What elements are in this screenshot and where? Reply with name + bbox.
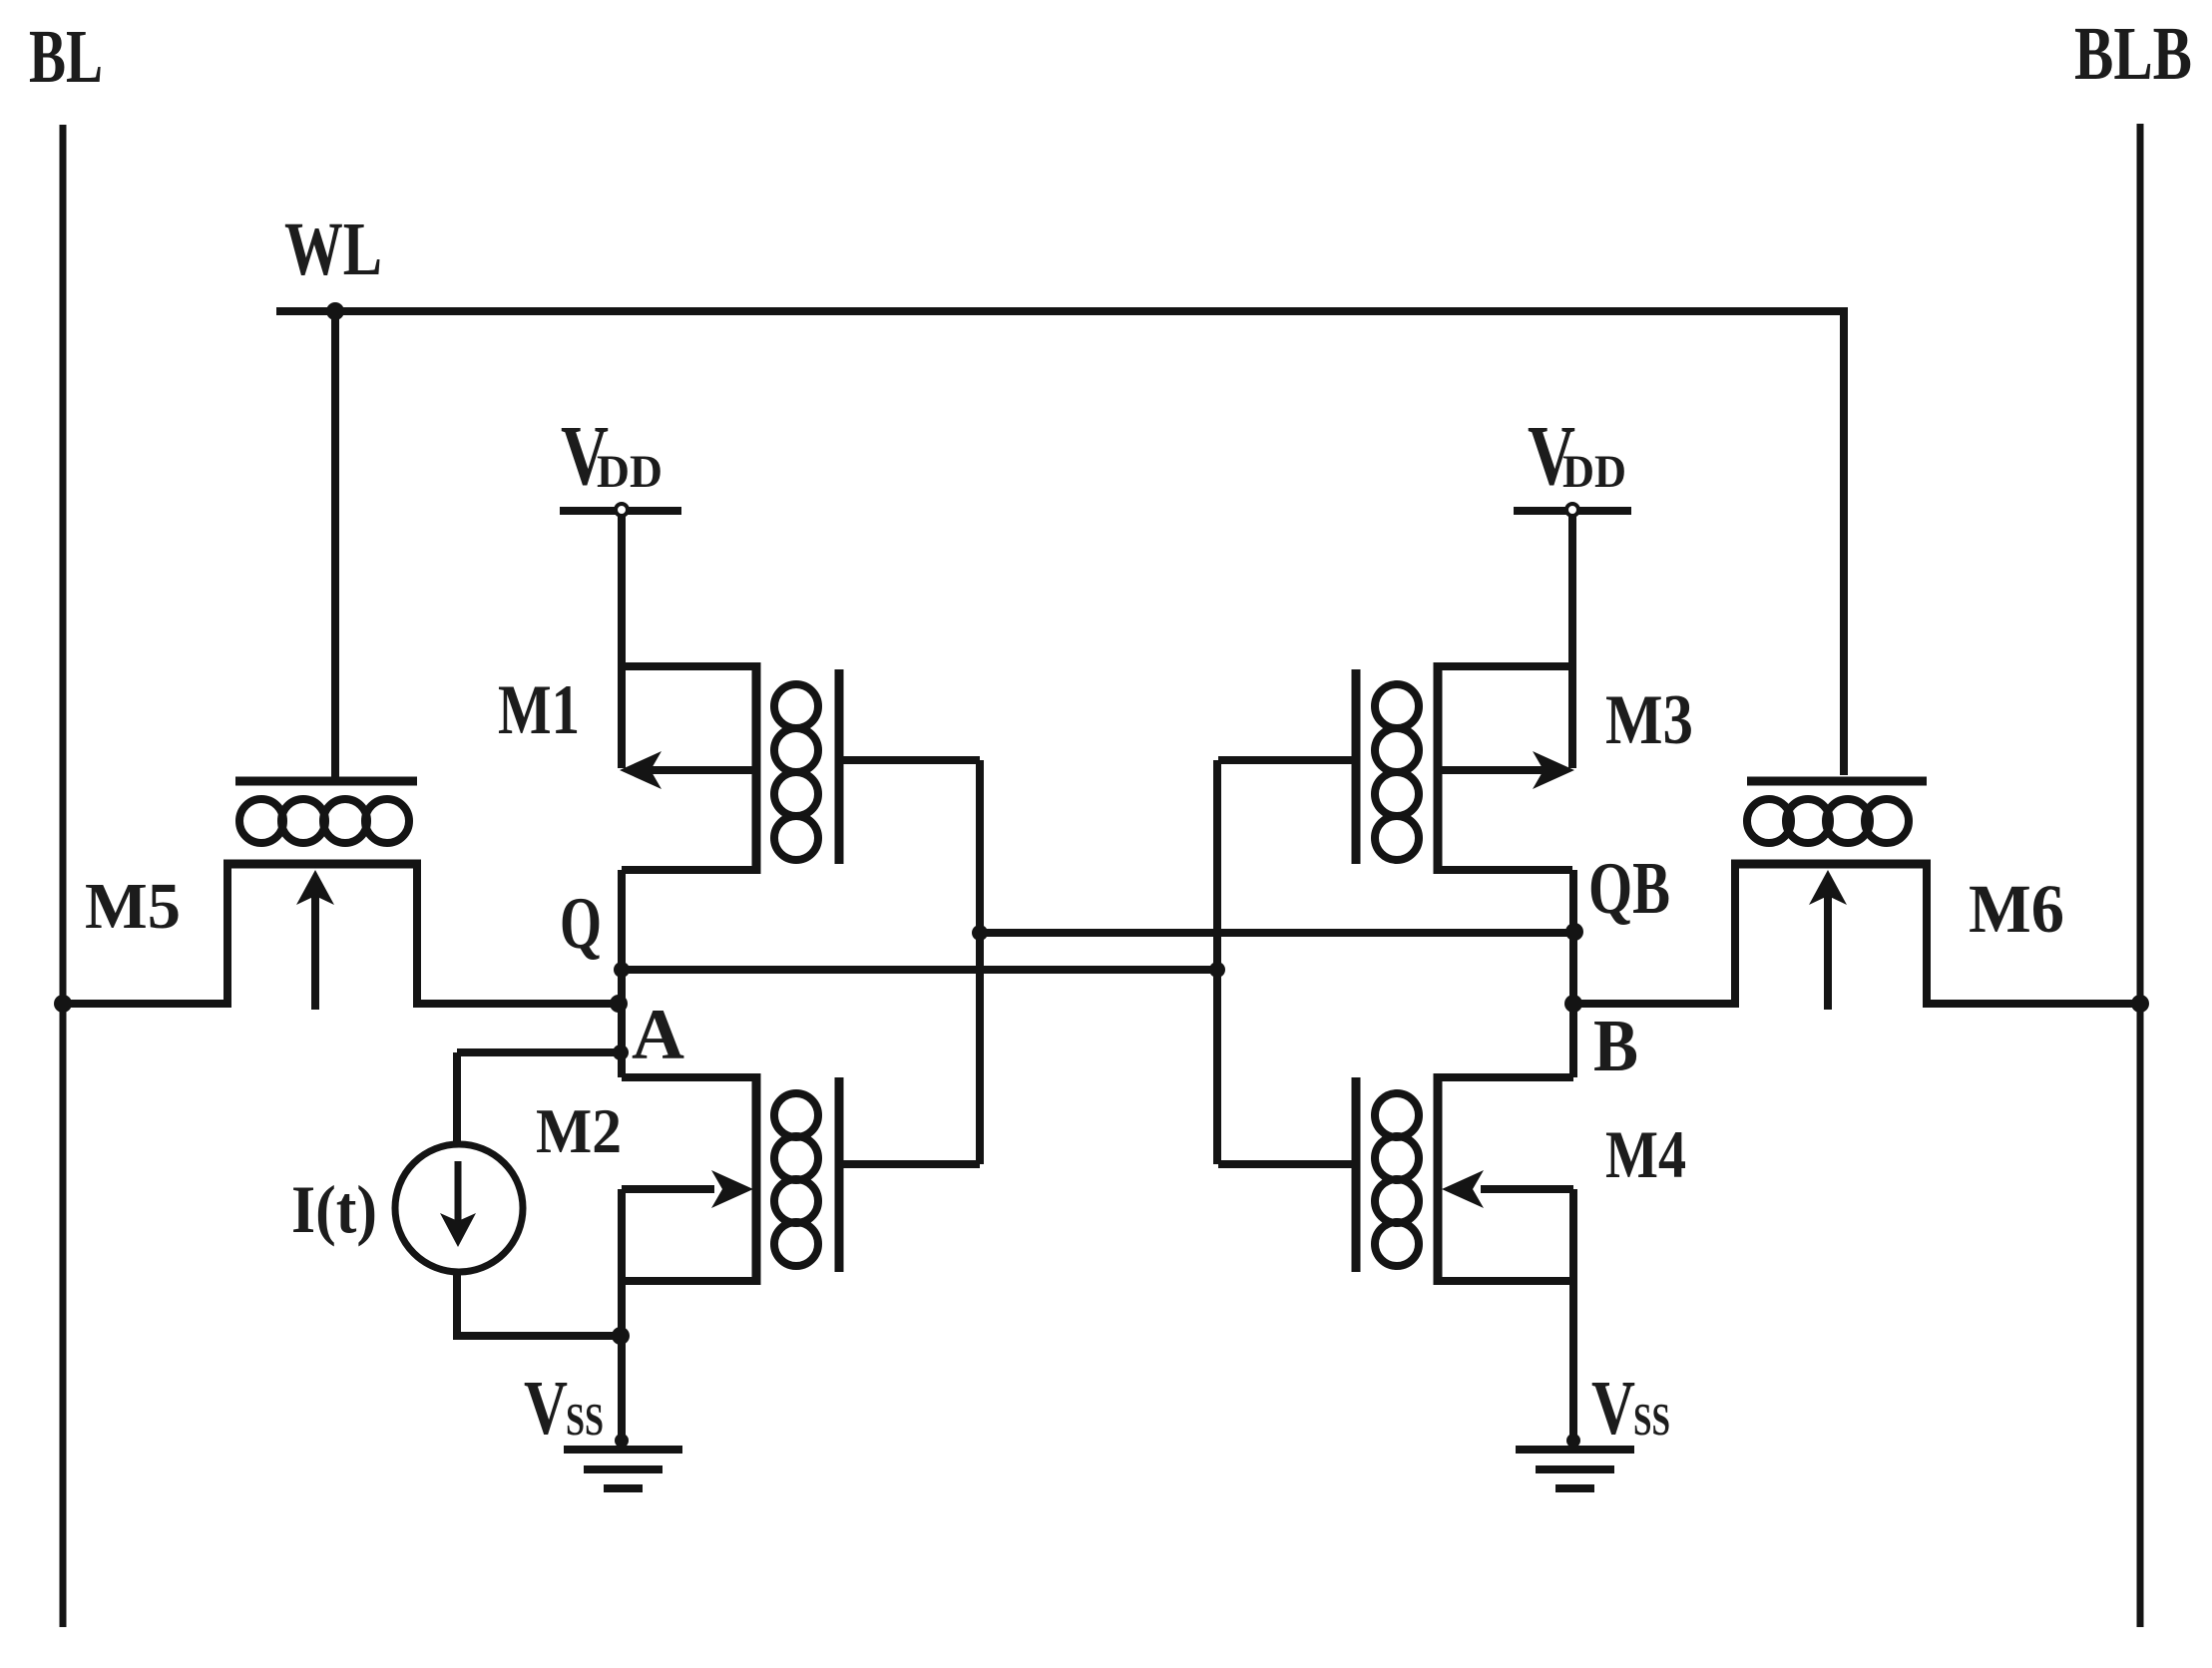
svg-text:M6: M6 <box>1969 871 2064 947</box>
M5 channel bar <box>223 860 421 869</box>
current source I(t) <box>395 1052 621 1336</box>
M4 gate bar <box>1352 1077 1361 1272</box>
M5 body arrow head <box>296 870 334 905</box>
M4 channel bar <box>1434 1073 1443 1285</box>
wire BL bit line <box>60 125 67 1627</box>
M6 channel bar <box>1731 860 1931 869</box>
svg-text:BLB: BLB <box>2074 12 2192 96</box>
wire WL word line <box>276 311 1844 775</box>
svg-text:QB: QB <box>1588 848 1670 930</box>
node QB <box>1565 923 1583 941</box>
svg-text:M2: M2 <box>536 1095 622 1166</box>
M1 channel bar <box>752 662 761 874</box>
node A <box>613 1044 629 1060</box>
node Q <box>614 962 630 978</box>
M2 source wire to VSS <box>618 1281 626 1447</box>
transistor M2 (NMOS pull-down, left) <box>622 1073 980 1447</box>
svg-text:DD: DD <box>1562 446 1626 498</box>
svg-text:SS: SS <box>1633 1395 1670 1445</box>
M1 source lead <box>622 662 756 670</box>
M5 drain lead to Q column <box>417 864 622 1004</box>
wire QB cross wire (upper, to M1/M2 gates) <box>980 929 1574 937</box>
M3 body lead <box>1438 766 1554 774</box>
current source arrow shaft <box>455 1161 462 1225</box>
M2 coil <box>774 1093 818 1266</box>
M2 gate bar <box>835 1077 844 1272</box>
svg-text:M5: M5 <box>85 870 181 943</box>
M2 body lead <box>622 1185 714 1193</box>
node Q wire right end <box>1209 962 1225 978</box>
wire Q column <box>618 870 626 1077</box>
M1 VDD supply bar <box>560 507 681 515</box>
M3 VDD supply bar <box>1514 507 1631 515</box>
M5 body lead <box>311 881 319 1010</box>
M6 source lead to B column <box>1573 864 1735 1004</box>
M6 body arrow head <box>1809 870 1847 905</box>
svg-text:WL: WL <box>284 208 382 291</box>
M2 body-source join <box>618 1189 626 1281</box>
M3 gate lead <box>1218 756 1356 764</box>
M6 drain lead to BLB <box>1927 864 2140 1004</box>
M1 VDD wire <box>618 511 626 768</box>
svg-text:I(t): I(t) <box>291 1171 377 1247</box>
node VSS junction left <box>612 1327 630 1345</box>
M4 body arrow head <box>1442 1170 1484 1208</box>
svg-text:V: V <box>1591 1365 1635 1451</box>
M6 coil <box>1747 799 1909 843</box>
current source circle <box>395 1144 523 1272</box>
svg-text:DD: DD <box>597 446 663 498</box>
node B <box>1564 995 1582 1013</box>
M5 gate bar <box>235 777 417 786</box>
M2 drain lead from A <box>622 1073 756 1081</box>
wire current source to VSS node <box>457 1272 621 1336</box>
M4 source lead <box>1438 1277 1573 1285</box>
transistor M6 (access NMOS, right) <box>1573 781 2140 1010</box>
current source arrow head <box>440 1213 476 1247</box>
M3 drain lead <box>1438 866 1572 874</box>
M4 gate lead <box>1218 1160 1356 1168</box>
node QB wire left end <box>972 925 988 941</box>
M4 coil <box>1375 1093 1419 1266</box>
transistor M4 (NMOS pull-down, right) <box>1218 1073 1573 1447</box>
M1 body lead <box>639 766 756 774</box>
svg-text:M3: M3 <box>1605 681 1693 759</box>
M5 coil <box>239 799 409 843</box>
node BL junction dot <box>54 995 72 1013</box>
M1 body arrow head <box>620 751 662 789</box>
svg-text:M4: M4 <box>1605 1116 1686 1192</box>
M5 source lead to BL <box>63 864 227 1004</box>
M4 source wire to VSS <box>1569 1281 1577 1447</box>
transistor M5 (access NMOS, left) <box>63 781 622 1010</box>
node main row left <box>610 995 628 1013</box>
transistor M3 (PMOS pull-up, right) <box>1218 511 1631 874</box>
M1 drain lead <box>622 866 756 874</box>
M1 coil <box>774 684 818 860</box>
node WL junction dot <box>326 302 344 320</box>
wire A to current source <box>453 1052 461 1144</box>
svg-text:SS: SS <box>566 1395 604 1445</box>
svg-text:M1: M1 <box>498 671 580 749</box>
M3 coil <box>1375 684 1419 860</box>
M3 gate bar <box>1352 669 1361 864</box>
M3 VDD wire <box>1568 511 1576 768</box>
wire left gate column <box>976 760 984 1164</box>
svg-text:V: V <box>524 1365 568 1451</box>
M2 source lead <box>622 1277 756 1285</box>
M6 gate bar <box>1747 777 1927 786</box>
svg-text:A: A <box>632 995 684 1074</box>
M1 gate lead <box>839 756 980 764</box>
M2 body arrow head <box>711 1170 753 1208</box>
wire BLB bit line <box>2137 124 2144 1627</box>
wire A stub to current source <box>457 1048 622 1056</box>
node BLB junction dot <box>2131 995 2149 1013</box>
M3 source lead <box>1438 662 1572 670</box>
wire WL to M5 gate <box>331 311 339 777</box>
node VDD terminal left <box>616 504 628 516</box>
svg-text:Q: Q <box>560 883 602 965</box>
wire QB column <box>1569 870 1577 1077</box>
svg-text:B: B <box>1593 1006 1638 1087</box>
ground VSS right <box>1516 1434 1634 1488</box>
ground VSS left <box>564 1434 682 1488</box>
transistor M1 (PMOS pull-up, left) <box>560 511 980 874</box>
wire Q cross wire (lower, to M3/M4 gates) <box>622 966 1217 974</box>
M4 body-source join <box>1569 1189 1577 1281</box>
M4 drain lead from B <box>1438 1073 1573 1081</box>
node VDD terminal right <box>1566 504 1578 516</box>
M4 body lead <box>1481 1185 1573 1193</box>
M2 channel bar <box>752 1073 761 1285</box>
M3 body arrow head <box>1533 751 1574 789</box>
M3 channel bar <box>1434 662 1443 874</box>
M6 body lead <box>1824 881 1832 1010</box>
M2 gate lead <box>839 1160 980 1168</box>
M1 gate bar <box>835 669 844 864</box>
wire right gate column <box>1213 760 1221 1164</box>
svg-text:BL: BL <box>29 15 103 99</box>
